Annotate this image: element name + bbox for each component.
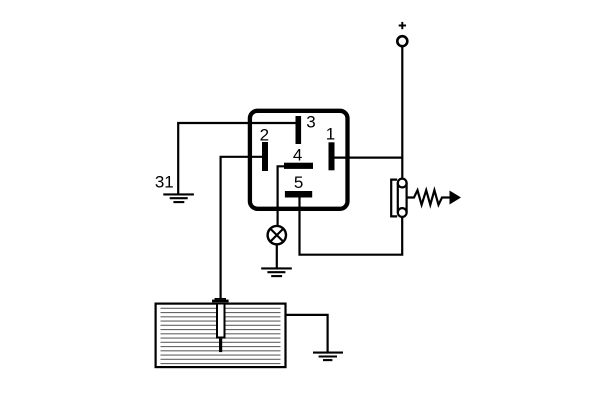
contact capsule circles [398, 179, 407, 188]
wire switch to pin5 [300, 196, 403, 255]
fuel sender/pump unit [212, 298, 229, 352]
capsule tangent sides [397, 183, 399, 213]
fuel tank body [156, 304, 286, 368]
svg-text:4: 4 [293, 145, 302, 164]
spring zigzag [407, 190, 450, 205]
svg-text:2: 2 [260, 126, 269, 145]
relay pin 2 terminal [262, 142, 268, 171]
ground terminal 31 [163, 194, 194, 202]
indicator lamp E1 [268, 226, 286, 244]
svg-text:5: 5 [294, 173, 303, 192]
ground below lamp [261, 268, 292, 276]
relay pin 4 terminal [284, 163, 313, 169]
ground at tank [313, 353, 343, 361]
wire pin1 to battery feed junction [334, 157, 402, 159]
svg-text:3: 3 [306, 113, 315, 132]
actuator bracket [391, 180, 397, 217]
fuel tank hatch fill [161, 308, 281, 363]
switch S1 (inertia/pressure actuated) [391, 179, 450, 217]
actuation arrow head [450, 191, 462, 205]
wire tank to ground [287, 315, 328, 352]
wire pin2 to fuel sender [221, 157, 265, 299]
svg-text:31: 31 [155, 173, 174, 192]
wire plus terminal to switch [401, 46, 403, 178]
relay K1 body [250, 111, 348, 209]
relay pin 1 terminal [329, 142, 335, 170]
wire pin4 to lamp [278, 166, 286, 226]
svg-text:1: 1 [326, 124, 335, 143]
relay pin 3 terminal [296, 116, 302, 144]
battery plus terminal [397, 22, 407, 46]
wire pin3 to terminal 31 ground [178, 123, 298, 195]
relay pin 5 terminal [285, 191, 312, 198]
wire lamp to ground [276, 244, 278, 268]
